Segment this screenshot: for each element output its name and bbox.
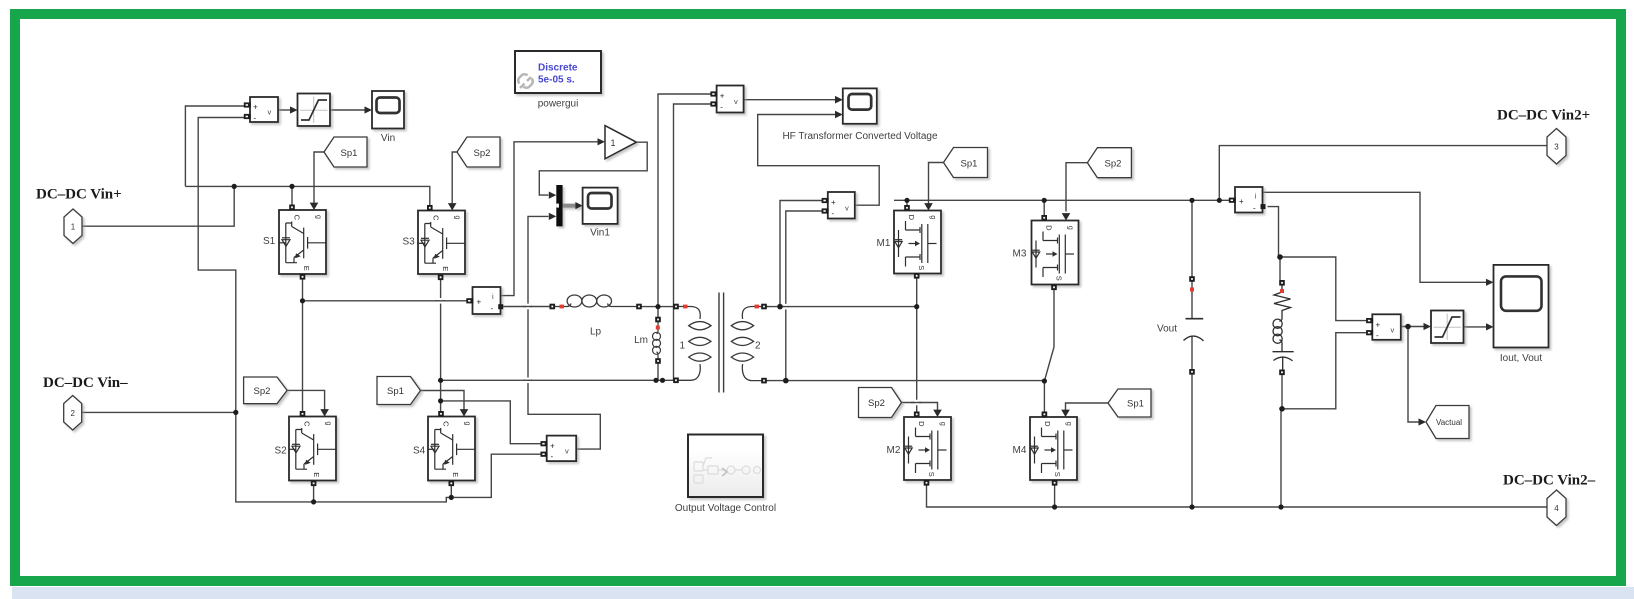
svg-text:S1: S1	[263, 236, 276, 247]
svg-text:-: -	[1253, 204, 1256, 213]
S4 ports	[438, 411, 444, 417]
IGBT S2	[289, 417, 336, 481]
wire VM1 minus	[198, 118, 246, 413]
arrow S2 gate	[320, 409, 329, 416]
wire S4 emitter drop	[450, 484, 452, 498]
svg-text:M4: M4	[1013, 445, 1027, 456]
capacitor plates	[1273, 351, 1294, 375]
node bus-M3C	[1042, 198, 1047, 203]
wire v1 plus down	[658, 94, 713, 307]
wire i2 circuit out down	[1268, 207, 1279, 257]
svg-text:Sp1: Sp1	[341, 148, 358, 159]
S3 ports	[427, 205, 433, 211]
svg-text:+: +	[720, 92, 725, 101]
gap v2minus x sec wire	[784, 304, 788, 310]
arrow M4 gate	[1061, 410, 1070, 417]
node S3E-a	[438, 378, 443, 383]
node S3E-b	[438, 398, 443, 403]
node sec-M1S	[914, 304, 919, 309]
arrow into HF scope in1	[835, 96, 843, 104]
wire Sp1E to M1 gate	[929, 163, 944, 204]
arrow M2 gate	[933, 410, 942, 417]
wire neg bus up right	[1280, 409, 1282, 507]
v4 nubs	[541, 441, 548, 446]
transformer secondary winding	[731, 307, 768, 381]
voltage measurement v4	[547, 436, 577, 462]
i1 nub	[466, 298, 473, 303]
transformer core	[719, 293, 724, 393]
svg-text:Sp1: Sp1	[961, 158, 978, 169]
Lm ports	[655, 317, 661, 323]
svg-text:v: v	[734, 97, 738, 106]
MOSFET M1	[894, 211, 941, 274]
Vout capacitor plates	[1186, 318, 1204, 320]
From tag Sp1-A	[324, 137, 367, 167]
node bus-port3	[1217, 198, 1222, 203]
svg-text:Sp2: Sp2	[474, 148, 491, 159]
node v3-out	[1405, 324, 1411, 330]
inductor Lm coils	[653, 317, 661, 364]
svg-text:HF Transformer Converted Volta: HF Transformer Converted Voltage	[782, 131, 938, 142]
tick Lp	[560, 305, 565, 309]
From tag Sp2-F	[1087, 148, 1131, 178]
current measurement i2	[1235, 187, 1263, 213]
gap muxwire x Lp wire	[526, 304, 530, 310]
wire bridge mid to transformer bottom	[441, 379, 674, 381]
svg-text:Discrete: Discrete	[538, 63, 578, 74]
transformer primary ports	[673, 304, 679, 310]
wire Sp2G to M2 gate	[902, 403, 938, 411]
svg-text:Sp2: Sp2	[868, 398, 885, 409]
wire v2 minus down	[786, 211, 823, 381]
output port 3	[1547, 129, 1566, 165]
Vout cap ports	[1189, 276, 1195, 282]
node bus-port1	[232, 184, 237, 189]
arrow S3 gate	[448, 203, 457, 210]
subsystem Output Voltage Control	[688, 435, 763, 498]
MOSFET M2	[904, 417, 951, 480]
wire v3 out to sat2	[1401, 326, 1424, 328]
wire Lp to Lm junction to transformer	[642, 306, 675, 308]
node sec-M3S	[1042, 378, 1047, 383]
wire Sp1D to S4 gate	[421, 391, 465, 411]
arrow into Iout scope in1	[1486, 279, 1494, 286]
powergui block	[515, 51, 601, 93]
S1 ports	[289, 205, 295, 211]
node negbus-rlc	[1278, 504, 1283, 509]
arrow S1 gate	[310, 203, 319, 210]
wire secondary bottom to M bridge	[767, 380, 1045, 382]
svg-text:v: v	[565, 447, 569, 456]
arrow into mux in1	[549, 192, 557, 199]
From tag Sp1-H	[1108, 389, 1151, 417]
wire v1 out to HF scope	[744, 99, 836, 101]
M4 ports	[1042, 412, 1048, 418]
svg-text:DC–DC Vin2–: DC–DC Vin2–	[1503, 473, 1596, 489]
svg-text:S2: S2	[275, 446, 288, 457]
wire port2	[80, 411, 236, 413]
wire Sp2F to M3 gate	[1066, 163, 1087, 212]
From tag Sp1-E	[944, 148, 988, 178]
From tag Sp2-B	[457, 137, 500, 167]
arrow into Iout scope in2	[1486, 323, 1494, 330]
M2 ports	[914, 412, 920, 418]
node sec-bot	[783, 378, 789, 384]
Lp ports	[550, 304, 556, 310]
node Lm-bot-b	[660, 378, 665, 383]
svg-text:M2: M2	[887, 445, 901, 456]
voltage measurement VM1	[250, 97, 278, 123]
wire M-bridge top bus	[894, 199, 1230, 201]
svg-text:v: v	[1391, 326, 1395, 335]
voltage measurement v3	[1372, 314, 1401, 340]
gain triangle	[605, 126, 636, 159]
mux block	[556, 185, 562, 226]
arrow into gain	[598, 138, 606, 145]
wire i2 signal to scope	[1263, 192, 1486, 282]
wire rlc bottom stub	[1281, 374, 1283, 409]
wire v2 out to HF scope in2	[758, 115, 880, 206]
svg-text:S4: S4	[413, 446, 426, 457]
svg-text:1: 1	[611, 138, 616, 148]
svg-text:+: +	[550, 442, 555, 451]
svg-text:Sp1: Sp1	[387, 386, 404, 397]
i2 nub	[1229, 198, 1236, 203]
wire i1 circuit out to Lp	[503, 306, 550, 308]
arrow S4 gate	[460, 409, 469, 416]
scope Vin1	[583, 188, 618, 224]
bottom light blue strip	[12, 587, 1634, 599]
mux thick out line	[563, 202, 583, 209]
S2 ports	[300, 411, 306, 417]
wire M3 source to M4	[1044, 287, 1054, 414]
svg-text:+: +	[477, 298, 482, 307]
svg-text:5e-05 s.: 5e-05 s.	[538, 75, 575, 86]
wire v1 minus down	[674, 104, 713, 380]
gap M1M2 x Sp2G wire	[915, 400, 919, 406]
node bus-cap	[1189, 198, 1194, 203]
svg-text:Vout: Vout	[1157, 324, 1177, 335]
node S1E-mid	[300, 298, 305, 303]
wire to v4 plus	[441, 401, 542, 444]
input port 2	[64, 396, 82, 431]
From tag Sp2-G	[859, 388, 902, 418]
v2 nubs	[822, 198, 829, 203]
i2 out square	[1261, 204, 1266, 209]
tick primary	[683, 305, 688, 309]
svg-text:Lm: Lm	[634, 335, 648, 346]
arrow into sat2	[1424, 323, 1432, 330]
node negbus-M4S	[1052, 504, 1057, 509]
svg-text:Vactual: Vactual	[1436, 418, 1462, 427]
IGBT S3	[418, 211, 465, 275]
MOSFET M3	[1032, 221, 1079, 285]
svg-text:-: -	[832, 209, 835, 218]
wire v3 minus loop	[1282, 333, 1367, 409]
svg-text:1: 1	[71, 223, 76, 232]
tick Vout cap	[1190, 288, 1194, 292]
wire Lm bottom stub	[657, 364, 659, 381]
node Lm-top	[655, 304, 660, 309]
voltage measurement v1	[717, 86, 744, 113]
svg-text:+: +	[1239, 197, 1244, 206]
arrow M3 gate	[1062, 213, 1071, 220]
series RLC branch icons	[1273, 284, 1294, 374]
transformer secondary ports	[761, 304, 767, 310]
svg-text:DC–DC Vin–: DC–DC Vin–	[43, 375, 128, 391]
node port2	[233, 410, 238, 415]
From tag Sp2-C	[244, 377, 288, 404]
node negbus-cap	[1189, 504, 1194, 509]
tick secondary	[755, 305, 760, 309]
wire midpoint bus to i1	[303, 300, 468, 302]
svg-text:Sp1: Sp1	[1127, 399, 1144, 410]
svg-text:Iout, Vout: Iout, Vout	[1500, 353, 1542, 364]
wire S3 emitter to S4	[440, 277, 442, 414]
arrow into sat1	[290, 106, 298, 113]
wire Vout cap top	[1191, 200, 1193, 318]
VM1 nubs	[244, 102, 251, 107]
svg-text:4: 4	[1554, 504, 1559, 513]
svg-text:-: -	[720, 103, 723, 112]
inductor Lp coils	[550, 295, 642, 307]
svg-text:1: 1	[679, 341, 685, 352]
svg-text:+: +	[253, 103, 258, 112]
node bus-M1C	[904, 198, 909, 203]
arrow into Vactual	[1419, 418, 1427, 425]
MOSFET M4	[1030, 417, 1077, 480]
output port 4	[1547, 490, 1566, 526]
wire sat1 to Vin scope	[330, 109, 365, 111]
svg-text:Sp2: Sp2	[1105, 159, 1122, 170]
svg-text:Vin: Vin	[381, 133, 395, 144]
saturation block SAT2	[1431, 311, 1464, 344]
svg-text:S3: S3	[403, 237, 416, 248]
svg-text:-: -	[551, 452, 554, 461]
current measurement i1	[473, 287, 501, 314]
wire secondary top to M bridge	[767, 306, 917, 308]
svg-text:2: 2	[755, 341, 761, 352]
i1 out square	[498, 304, 503, 309]
scope Iout Vout	[1494, 265, 1549, 348]
wire port1 to bus	[82, 186, 234, 226]
wire i1 signal to gain	[501, 142, 598, 296]
saturation block SAT1	[298, 94, 331, 127]
arrow into HF scope in2	[835, 111, 843, 119]
transformer primary winding	[674, 307, 711, 381]
M1 ports	[904, 205, 910, 211]
svg-text:Sp2: Sp2	[254, 386, 271, 397]
svg-text:Vin1: Vin1	[590, 228, 610, 239]
svg-text:-: -	[1376, 331, 1379, 340]
wire port3	[1219, 146, 1546, 201]
wire VM1 out to saturation	[278, 109, 290, 111]
RLC ports	[1279, 280, 1285, 286]
IGBT S1	[279, 210, 326, 274]
node sec-top	[777, 304, 783, 310]
wire top-left bus	[185, 186, 429, 205]
svg-text:v: v	[845, 204, 849, 213]
wire S2 emitter drop	[313, 484, 315, 502]
arrow M1 gate	[924, 203, 933, 210]
svg-text:DC–DC Vin+: DC–DC Vin+	[36, 187, 122, 203]
wire M3 collector stub	[1043, 200, 1045, 217]
M3 ports	[1041, 215, 1047, 221]
wire rlc top stub	[1279, 257, 1281, 280]
wire v3 out to Vactual	[1408, 327, 1419, 423]
wire v3 plus loop	[1280, 257, 1367, 321]
svg-text:v: v	[268, 108, 272, 117]
wire M4 source drop	[1054, 483, 1056, 507]
svg-text:M1: M1	[877, 238, 891, 249]
svg-text:M3: M3	[1013, 249, 1027, 260]
wire VM1 plus	[185, 106, 246, 186]
svg-text:-: -	[491, 304, 494, 313]
wire M1 source to M2	[916, 277, 918, 415]
wire Vout cap bottom	[1191, 337, 1193, 508]
tick Lm	[656, 326, 660, 330]
node Lm-bot-a	[653, 378, 658, 383]
voltage measurement v2	[828, 192, 855, 219]
wire Sp2B to S3 gate	[452, 152, 457, 204]
svg-text:+: +	[831, 198, 836, 207]
svg-text:+: +	[1376, 321, 1381, 330]
svg-text:Output Voltage Control: Output Voltage Control	[675, 503, 776, 514]
node bus-S1C	[289, 184, 294, 189]
wire gain out to mux in1	[539, 142, 647, 195]
svg-text:DC–DC Vin2+: DC–DC Vin2+	[1497, 108, 1590, 124]
inductor coils	[1279, 316, 1282, 351]
svg-text:3: 3	[1554, 143, 1559, 152]
wire Sp2C to S2 gate	[287, 390, 325, 410]
node S4E-neg	[449, 495, 454, 500]
svg-text:Lp: Lp	[590, 327, 602, 338]
wire Sp1H to M4 gate	[1066, 403, 1109, 411]
tick RLC	[1280, 289, 1284, 293]
wire S1 collector stub	[291, 186, 293, 205]
gap muxwire x bottom wire	[526, 378, 530, 384]
scope HF	[843, 88, 877, 123]
wire M2 source drop	[927, 483, 1547, 507]
Goto tag Vactual	[1426, 406, 1469, 439]
svg-text:-: -	[254, 114, 257, 123]
wire Lm top stub	[657, 307, 659, 317]
input port 1	[64, 209, 82, 244]
node rlc-top	[1277, 254, 1283, 260]
wire v4 out to mux in2	[528, 216, 600, 449]
svg-text:powergui: powergui	[538, 99, 579, 110]
From tag Sp1-D	[377, 377, 421, 405]
wire S1 emitter to S2	[302, 277, 304, 414]
wire neg bus left	[236, 412, 541, 502]
arrow into Vin scope	[365, 106, 373, 113]
scope Vin	[372, 91, 404, 129]
wire sat2 to scope	[1463, 326, 1486, 328]
resistor zigzag	[1274, 284, 1291, 316]
IGBT S4	[428, 417, 475, 481]
arrow into mux in2	[549, 213, 557, 220]
gap S3E x midbus	[439, 298, 443, 304]
node S2E-neg	[311, 499, 316, 504]
wire M1 collector stub	[906, 200, 908, 208]
v3 nubs	[1366, 318, 1373, 323]
node rlc-bot	[1279, 406, 1285, 412]
svg-text:2: 2	[70, 409, 75, 418]
wire Sp1A to S1 gate	[314, 152, 324, 203]
v1 nubs	[710, 91, 717, 96]
wire v2 plus down	[780, 201, 822, 307]
